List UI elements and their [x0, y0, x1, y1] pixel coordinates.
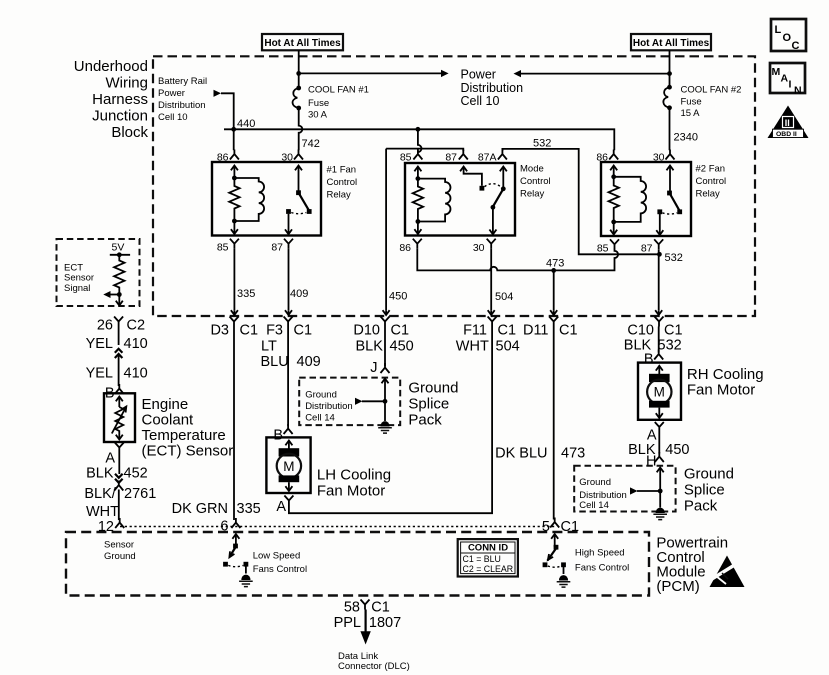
svg-text:Fans Control: Fans Control	[253, 564, 307, 575]
svg-text:Engine: Engine	[142, 396, 189, 413]
svg-text:LH Cooling: LH Cooling	[317, 467, 391, 484]
svg-text:F11: F11	[463, 323, 487, 339]
svg-text:N: N	[794, 85, 802, 97]
svg-text:Pack: Pack	[684, 497, 718, 514]
svg-text:30: 30	[281, 152, 293, 164]
svg-text:C1: C1	[559, 323, 578, 339]
svg-text:PPL: PPL	[334, 615, 361, 631]
svg-text:(PCM): (PCM)	[656, 578, 699, 595]
svg-text:85: 85	[597, 243, 609, 255]
svg-text:M: M	[654, 385, 665, 400]
svg-text:Distribution: Distribution	[305, 401, 353, 412]
svg-text:Splice: Splice	[408, 396, 449, 413]
svg-text:LT: LT	[261, 339, 277, 355]
svg-text:6: 6	[220, 519, 228, 535]
svg-text:Power: Power	[158, 88, 185, 99]
svg-text:C1: C1	[240, 323, 259, 339]
svg-text:C10: C10	[627, 323, 654, 339]
svg-text:85: 85	[217, 242, 229, 254]
svg-text:410: 410	[124, 336, 148, 352]
svg-text:Fan Motor: Fan Motor	[687, 382, 755, 399]
svg-text:C1: C1	[294, 323, 313, 339]
svg-text:Fuse: Fuse	[681, 97, 702, 108]
svg-text:DK BLU: DK BLU	[495, 446, 547, 462]
svg-text:C1 = BLU: C1 = BLU	[463, 554, 501, 564]
svg-text:440: 440	[237, 118, 255, 130]
svg-text:30 A: 30 A	[308, 110, 328, 121]
svg-text:Wiring: Wiring	[105, 75, 148, 92]
svg-text:C1: C1	[371, 600, 390, 616]
svg-text:Cell 14: Cell 14	[579, 500, 609, 511]
svg-text:B: B	[644, 352, 654, 368]
svg-text:D3: D3	[210, 323, 229, 339]
svg-text:Cell 10: Cell 10	[461, 94, 500, 108]
svg-text:C2: C2	[127, 318, 146, 334]
svg-text:Coolant: Coolant	[142, 412, 195, 429]
svg-text:1807: 1807	[369, 615, 401, 631]
svg-text:85: 85	[400, 152, 412, 164]
svg-text:450: 450	[390, 339, 414, 355]
svg-text:335: 335	[237, 501, 261, 517]
svg-text:O: O	[783, 32, 792, 44]
svg-text:Battery Rail: Battery Rail	[158, 76, 207, 87]
svg-text:335: 335	[237, 288, 255, 300]
svg-text:High Speed: High Speed	[575, 548, 625, 559]
svg-text:(ECT) Sensor: (ECT) Sensor	[142, 443, 234, 460]
svg-text:BLU: BLU	[261, 354, 289, 370]
svg-text:450: 450	[389, 291, 407, 303]
svg-text:L: L	[775, 24, 782, 36]
svg-text:Ground: Ground	[579, 477, 611, 488]
svg-text:5: 5	[542, 519, 550, 535]
svg-text:BLK: BLK	[356, 339, 384, 355]
svg-text:C1: C1	[664, 323, 683, 339]
svg-text:Control: Control	[520, 176, 551, 187]
svg-text:473: 473	[561, 446, 585, 462]
svg-text:II: II	[785, 118, 790, 128]
svg-text:86: 86	[399, 242, 411, 254]
svg-text:Fans Control: Fans Control	[575, 563, 629, 574]
svg-text:D10: D10	[353, 323, 380, 339]
svg-text:Mode: Mode	[520, 164, 544, 175]
svg-text:A: A	[105, 451, 115, 467]
svg-text:YEL: YEL	[86, 336, 113, 352]
svg-text:Control: Control	[696, 176, 727, 187]
svg-text:BLK/: BLK/	[84, 486, 116, 502]
svg-text:473: 473	[546, 258, 564, 270]
svg-text:#2 Fan: #2 Fan	[696, 164, 726, 175]
svg-text:86: 86	[596, 152, 608, 164]
svg-text:2761: 2761	[124, 486, 156, 502]
svg-text:WHT: WHT	[86, 504, 119, 520]
svg-text:532: 532	[665, 252, 683, 264]
svg-text:87: 87	[641, 243, 653, 255]
svg-text:Connector (DLC): Connector (DLC)	[338, 661, 410, 672]
svg-text:12: 12	[98, 519, 114, 535]
svg-text:WHT: WHT	[456, 339, 489, 355]
svg-text:15 A: 15 A	[681, 108, 701, 119]
svg-text:COOL FAN #1: COOL FAN #1	[308, 85, 369, 96]
svg-text:86: 86	[217, 152, 229, 164]
svg-text:Ground: Ground	[684, 466, 734, 483]
svg-text:A: A	[781, 73, 789, 85]
svg-text:J: J	[370, 360, 377, 376]
svg-text:Low Speed: Low Speed	[253, 551, 301, 562]
svg-text:I: I	[789, 79, 792, 91]
svg-text:Ground: Ground	[104, 551, 136, 562]
svg-text:Hot At All Times: Hot At All Times	[633, 38, 710, 49]
svg-text:OBD II: OBD II	[776, 131, 797, 138]
svg-text:Signal: Signal	[64, 283, 90, 294]
svg-text:D11: D11	[523, 323, 549, 339]
svg-text:Sensor: Sensor	[104, 540, 134, 551]
svg-text:C1: C1	[561, 519, 580, 535]
svg-text:Ground: Ground	[408, 380, 458, 397]
svg-text:Temperature: Temperature	[142, 427, 226, 444]
svg-text:58: 58	[344, 600, 360, 616]
svg-text:BLK: BLK	[86, 466, 114, 482]
svg-text:M: M	[772, 66, 781, 78]
svg-text:Control: Control	[327, 177, 358, 188]
svg-text:Fuse: Fuse	[308, 98, 329, 109]
svg-text:Cell 14: Cell 14	[305, 413, 335, 424]
svg-text:5V: 5V	[112, 242, 125, 254]
svg-text:Fan Motor: Fan Motor	[317, 482, 385, 499]
svg-text:B: B	[273, 428, 283, 444]
svg-text:DK GRN: DK GRN	[172, 501, 228, 517]
svg-text:30: 30	[473, 242, 485, 254]
svg-text:Distribution: Distribution	[158, 100, 206, 111]
svg-text:504: 504	[496, 339, 520, 355]
svg-text:87: 87	[271, 242, 283, 254]
svg-text:30: 30	[653, 152, 665, 164]
svg-text:742: 742	[302, 138, 320, 150]
svg-text:2340: 2340	[674, 132, 698, 144]
svg-text:CONN ID: CONN ID	[468, 543, 508, 554]
svg-text:Relay: Relay	[696, 189, 721, 200]
svg-text:87A: 87A	[478, 152, 497, 164]
svg-text:C1: C1	[498, 323, 517, 339]
svg-text:450: 450	[665, 442, 689, 458]
svg-text:Distribution: Distribution	[461, 81, 524, 95]
svg-text:M: M	[283, 459, 294, 474]
svg-text:Block: Block	[111, 124, 148, 141]
svg-text:410: 410	[124, 366, 148, 382]
svg-text:532: 532	[658, 338, 682, 354]
svg-text:Underhood: Underhood	[74, 58, 148, 75]
svg-text:Pack: Pack	[408, 411, 442, 428]
svg-text:Harness: Harness	[92, 91, 148, 108]
svg-text:C1: C1	[391, 323, 410, 339]
svg-text:504: 504	[495, 291, 513, 303]
svg-text:Relay: Relay	[327, 190, 352, 201]
svg-text:C: C	[792, 40, 800, 52]
svg-text:532: 532	[533, 138, 551, 150]
svg-text:Junction: Junction	[92, 108, 148, 125]
svg-text:C2 = CLEAR: C2 = CLEAR	[463, 564, 514, 574]
svg-text:452: 452	[124, 466, 148, 482]
svg-text:A: A	[276, 499, 286, 515]
svg-text:Power: Power	[461, 68, 496, 82]
svg-text:#1 Fan: #1 Fan	[327, 165, 357, 176]
svg-text:26: 26	[97, 318, 113, 334]
svg-text:87: 87	[445, 152, 457, 164]
svg-text:409: 409	[297, 354, 321, 370]
svg-text:Ground: Ground	[305, 389, 337, 400]
svg-text:Splice: Splice	[684, 482, 725, 499]
svg-text:409: 409	[290, 288, 308, 300]
svg-text:COOL FAN #2: COOL FAN #2	[681, 85, 742, 96]
svg-text:Cell 10: Cell 10	[158, 112, 188, 123]
svg-text:Relay: Relay	[520, 189, 545, 200]
svg-text:Hot At All Times: Hot At All Times	[264, 38, 341, 49]
svg-text:YEL: YEL	[86, 366, 113, 382]
svg-text:F3: F3	[266, 323, 283, 339]
svg-text:RH Cooling: RH Cooling	[687, 366, 764, 383]
